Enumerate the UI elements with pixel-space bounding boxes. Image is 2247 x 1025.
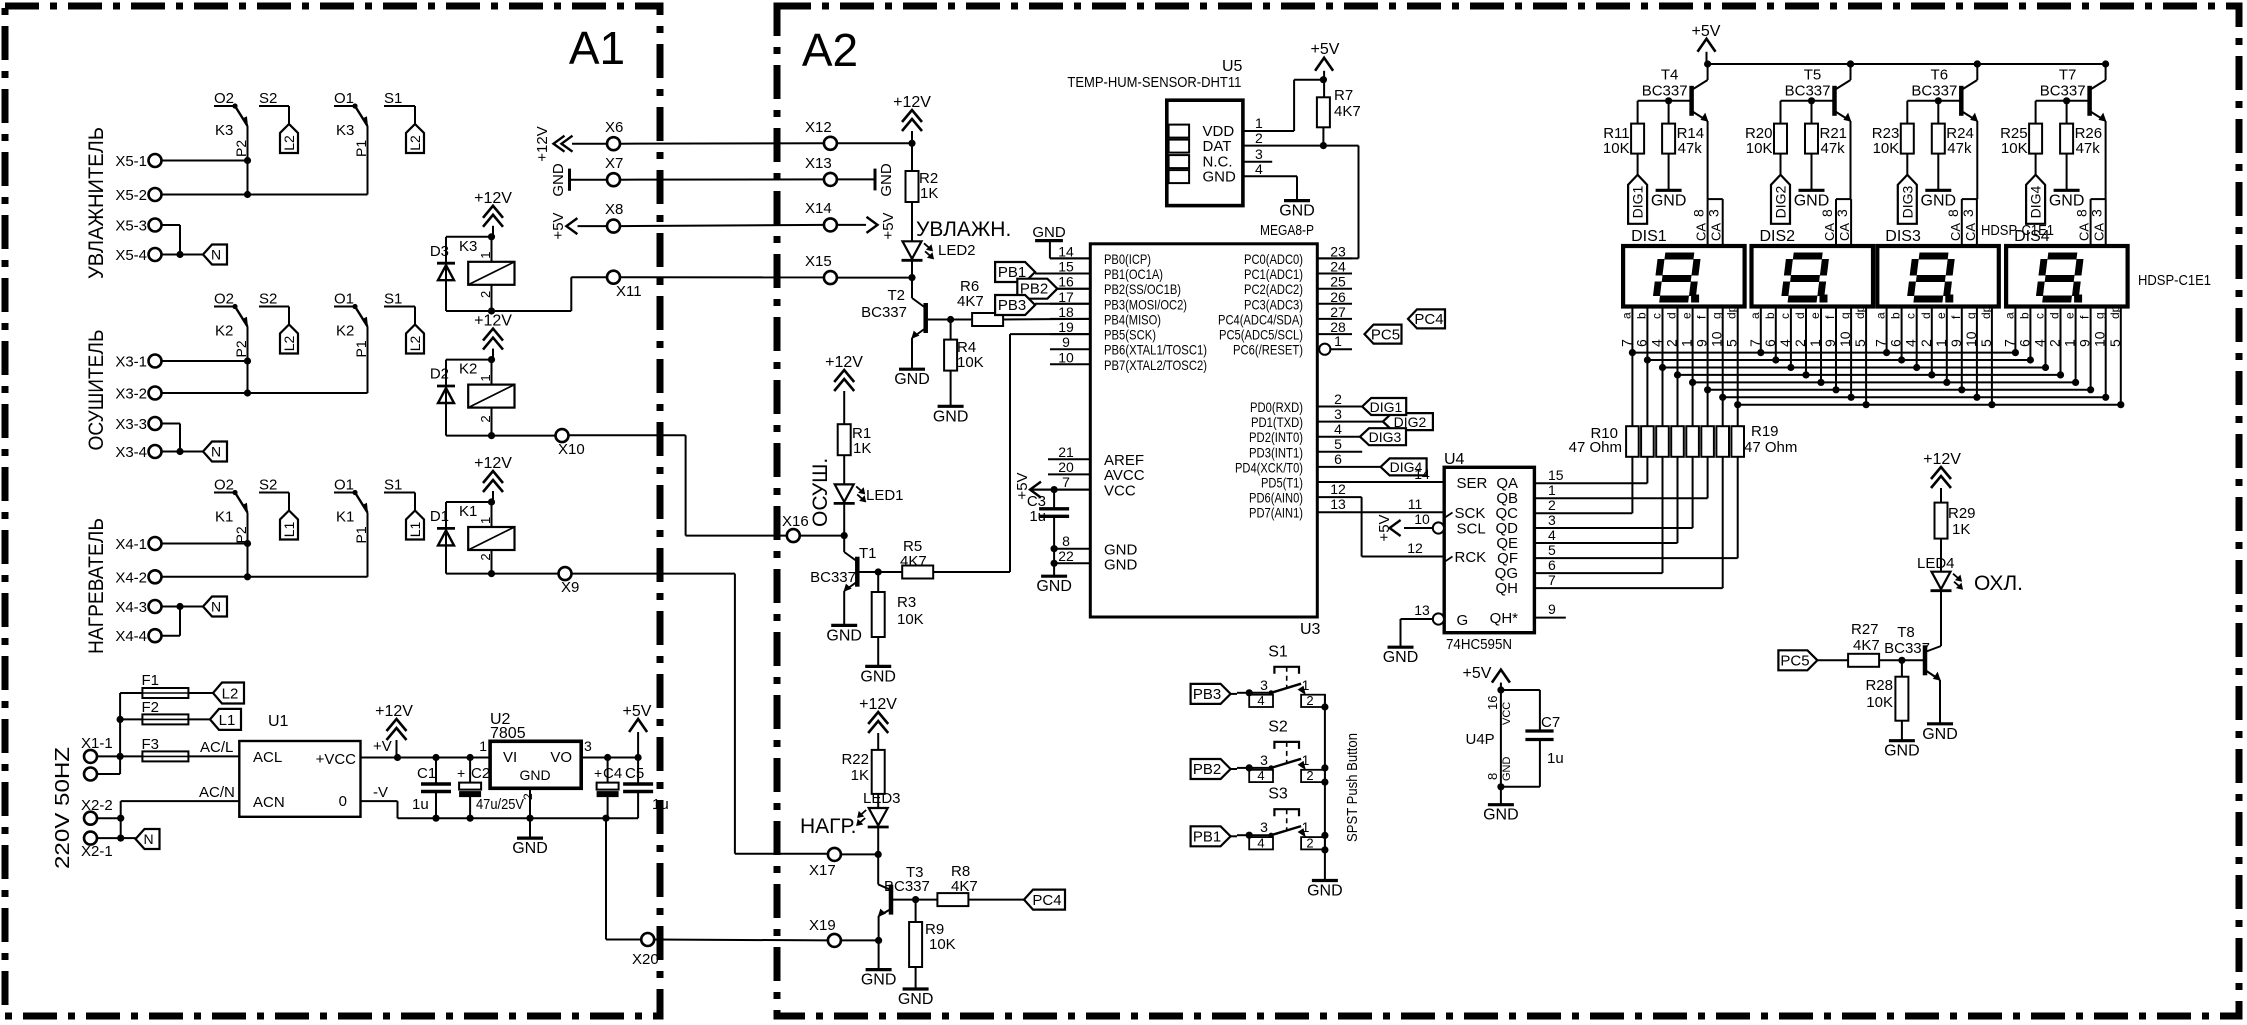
- transistor T3: [861, 854, 930, 988]
- svg-text:PB1(OC1A): PB1(OC1A): [1104, 266, 1163, 282]
- svg-text:F2: F2: [142, 699, 160, 716]
- svg-text:X5-3: X5-3: [115, 218, 147, 235]
- channel title НАГРЕВАТЕЛЬ: [85, 518, 108, 654]
- svg-text:R19: R19: [1751, 423, 1779, 440]
- diode D3: [430, 237, 455, 311]
- svg-text:X8: X8: [605, 201, 623, 218]
- svg-text:D2: D2: [430, 366, 449, 383]
- svg-text:c: c: [1778, 313, 1792, 319]
- svg-text:dp: dp: [1725, 305, 1739, 319]
- resistor R25: [2000, 124, 2042, 175]
- pushbutton S1: [1237, 643, 1329, 710]
- svg-text:g: g: [1838, 312, 1852, 319]
- svg-text:HDSP-C1E1: HDSP-C1E1: [1981, 222, 2054, 239]
- wire -V: [361, 784, 398, 818]
- svg-text:ACN: ACN: [253, 794, 285, 811]
- transistor T1: [810, 536, 876, 645]
- transistor T2: [861, 278, 930, 389]
- svg-text:7805: 7805: [490, 725, 526, 742]
- label SPST: [1344, 733, 1361, 842]
- svg-text:SER: SER: [1457, 475, 1488, 492]
- resistor R24: [1921, 101, 1974, 210]
- capacitor C5: [623, 758, 669, 819]
- U5 pin2 wire: [1243, 130, 1359, 258]
- flag PB2 (S2): [1191, 759, 1237, 779]
- svg-text:d: d: [1919, 312, 1933, 319]
- svg-text:16: 16: [1058, 274, 1074, 290]
- svg-text:PB1: PB1: [1193, 829, 1221, 846]
- svg-text:2: 2: [1664, 339, 1680, 347]
- K3 switch contact P2: [214, 103, 251, 198]
- svg-text:LED4: LED4: [1917, 555, 1955, 572]
- wire K2 top: [446, 356, 495, 363]
- svg-text:S2: S2: [259, 90, 277, 107]
- svg-text:2: 2: [1334, 391, 1342, 407]
- U4 RCK pin: [1444, 549, 1486, 566]
- svg-text:e: e: [2063, 312, 2077, 319]
- wire PB5 to R5: [1010, 334, 1090, 572]
- svg-text:U4: U4: [1444, 451, 1465, 468]
- svg-text:R27: R27: [1851, 621, 1879, 638]
- svg-text:X1-1: X1-1: [81, 735, 113, 752]
- svg-text:GND: GND: [1383, 649, 1419, 666]
- flag PC4 (T3): [1024, 890, 1065, 910]
- svg-text:GND: GND: [861, 972, 897, 989]
- svg-text:+VCC: +VCC: [316, 751, 357, 768]
- svg-text:7: 7: [1618, 339, 1634, 347]
- svg-text:4: 4: [1257, 693, 1264, 708]
- sensor U5: [1067, 58, 1243, 206]
- resistor R5: [860, 566, 1011, 579]
- svg-text:PD7(AIN1): PD7(AIN1): [1249, 505, 1303, 521]
- svg-text:DAT: DAT: [1203, 138, 1232, 155]
- svg-text:1: 1: [1933, 339, 1949, 347]
- button gnd bus: [1307, 694, 1343, 900]
- svg-text:9: 9: [1948, 339, 1964, 347]
- svg-text:X2-2: X2-2: [81, 797, 113, 814]
- channel title УВЛАЖНИТЕЛЬ: [85, 127, 108, 279]
- svg-text:+12V: +12V: [1923, 451, 1961, 468]
- svg-text:X4-1: X4-1: [115, 536, 147, 553]
- K3 switch labels: [214, 90, 402, 157]
- svg-text:1K: 1K: [920, 185, 938, 202]
- K2 lamp flag L2 (S1): [384, 307, 424, 354]
- svg-text:DIG3: DIG3: [1899, 185, 1915, 218]
- svg-text:4: 4: [1649, 339, 1665, 347]
- resistor R9: [898, 900, 956, 1008]
- svg-text:DIG1: DIG1: [1370, 399, 1403, 415]
- U4 QH* pin: [1490, 601, 1566, 627]
- svg-text:PD4(XCK/T0): PD4(XCK/T0): [1235, 459, 1303, 475]
- flag DIG3: [1898, 175, 1917, 224]
- svg-text:CA: CA: [1948, 223, 1963, 241]
- resistor R29: [1935, 503, 1976, 539]
- U3 power pin rows: [1030, 444, 1145, 574]
- svg-text:BC337: BC337: [1911, 83, 1957, 100]
- svg-text:VO: VO: [550, 749, 572, 766]
- svg-text:PB7(XTAL2/TOSC2): PB7(XTAL2/TOSC2): [1104, 357, 1207, 373]
- svg-text:X15: X15: [805, 253, 832, 270]
- diode D2: [430, 360, 455, 436]
- svg-text:10K: 10K: [1603, 140, 1630, 157]
- wire T4 base: [1638, 97, 1692, 123]
- connector X1-1: [81, 735, 113, 763]
- capacitor C1: [412, 758, 451, 819]
- connector X4-4: [115, 628, 161, 645]
- svg-text:PB3: PB3: [998, 297, 1026, 314]
- connector X14: [805, 200, 837, 231]
- svg-text:F1: F1: [142, 672, 160, 689]
- svg-text:X12: X12: [805, 119, 832, 136]
- display DIS1: [1623, 228, 1745, 307]
- U3 pin5 stub: [1317, 436, 1362, 452]
- svg-text:ACL: ACL: [253, 749, 282, 766]
- svg-text:6: 6: [1334, 451, 1342, 467]
- transistor T7: [2040, 60, 2109, 199]
- LED LED1: [834, 455, 904, 535]
- connector X2-2: [81, 797, 113, 825]
- svg-text:6: 6: [1633, 339, 1649, 347]
- svg-text:BC337: BC337: [1642, 83, 1688, 100]
- connector X4-2: [115, 569, 161, 586]
- svg-text:27: 27: [1330, 304, 1346, 320]
- svg-text:b: b: [1634, 312, 1648, 319]
- svg-text:47k: 47k: [1947, 140, 1972, 157]
- wire K3 top: [446, 233, 495, 240]
- svg-text:1u: 1u: [412, 796, 429, 813]
- svg-text:g: g: [2093, 312, 2107, 319]
- svg-text:PC4: PC4: [1414, 311, 1443, 328]
- wire X19: [841, 939, 879, 941]
- svg-text:D1: D1: [430, 508, 449, 525]
- +12V supply (K3): [474, 190, 512, 237]
- svg-text:PB3: PB3: [1193, 686, 1221, 703]
- wire K2 to X10: [492, 435, 556, 437]
- svg-text:10: 10: [1058, 349, 1074, 365]
- label R19: [1744, 423, 1797, 456]
- svg-text:+5V: +5V: [550, 212, 567, 239]
- +12V supply (R1): [825, 354, 863, 424]
- wire K3 bottom: [446, 307, 495, 314]
- connector X5-2: [115, 187, 161, 204]
- K1 lamp flag L1 (S2): [259, 493, 298, 540]
- svg-text:X20: X20: [632, 951, 659, 968]
- svg-text:1: 1: [2062, 339, 2078, 347]
- svg-text:HDSP-C1E1: HDSP-C1E1: [2138, 272, 2211, 289]
- svg-text:T8: T8: [1897, 624, 1915, 641]
- lamp flag L1 (F2): [188, 709, 241, 730]
- svg-text:4K7: 4K7: [957, 293, 984, 310]
- svg-text:L2: L2: [281, 135, 297, 151]
- svg-text:GND: GND: [1651, 192, 1687, 209]
- svg-text:4K7: 4K7: [1334, 103, 1361, 120]
- flag DIG3 (U3): [1317, 428, 1406, 445]
- GND tap at X7: [550, 163, 570, 197]
- svg-text:PC3(ADC3): PC3(ADC3): [1244, 296, 1303, 312]
- svg-text:2: 2: [2047, 339, 2063, 347]
- svg-text:24: 24: [1330, 259, 1346, 275]
- +5V supply (U4P): [1463, 665, 1510, 690]
- svg-text:PC5: PC5: [1780, 653, 1809, 670]
- svg-text:dp: dp: [2108, 305, 2122, 319]
- svg-text:PC2(ADC2): PC2(ADC2): [1244, 281, 1303, 297]
- svg-text:220V 50HZ: 220V 50HZ: [52, 747, 74, 869]
- svg-text:+: +: [457, 765, 465, 781]
- svg-text:LED3: LED3: [863, 790, 901, 807]
- display DIS2: [1752, 228, 1874, 307]
- flag DIG1 (U3): [1317, 398, 1406, 415]
- svg-text:S1: S1: [384, 477, 402, 494]
- resistor R6: [928, 278, 1090, 326]
- connector X16: [782, 513, 809, 542]
- connector X3-4: [115, 444, 161, 461]
- svg-text:R3: R3: [897, 594, 916, 611]
- U4 SER label: [1457, 475, 1488, 492]
- svg-text:12: 12: [1330, 481, 1346, 497]
- svg-text:K1: K1: [336, 509, 354, 526]
- connector X9: [559, 567, 580, 596]
- svg-text:X6: X6: [605, 119, 623, 136]
- connector X1-2: [84, 768, 97, 781]
- svg-text:НАГРЕВАТЕЛЬ: НАГРЕВАТЕЛЬ: [85, 518, 108, 654]
- resistor R14: [1651, 101, 1704, 210]
- svg-text:5: 5: [2107, 339, 2123, 347]
- svg-text:DIG3: DIG3: [1369, 429, 1402, 445]
- svg-text:3: 3: [1260, 752, 1268, 768]
- +12V supply (K2): [474, 313, 512, 360]
- wire X3-1: [162, 360, 248, 362]
- svg-text:+5V: +5V: [1376, 514, 1393, 541]
- svg-text:3: 3: [2089, 209, 2105, 217]
- +5V tap (VCC): [1014, 472, 1041, 499]
- resistor R3: [860, 572, 923, 685]
- svg-text:PB2: PB2: [1193, 761, 1221, 778]
- svg-text:L1: L1: [407, 522, 423, 538]
- svg-text:GND: GND: [1032, 224, 1066, 241]
- wire X11 to X15: [620, 276, 824, 278]
- svg-text:T2: T2: [887, 287, 905, 304]
- svg-text:ОХЛ.: ОХЛ.: [1974, 572, 2023, 595]
- connector X3-1: [115, 354, 161, 371]
- svg-text:7: 7: [1548, 572, 1556, 588]
- svg-text:8: 8: [2074, 209, 2090, 217]
- svg-text:O2: O2: [214, 477, 234, 494]
- svg-text:4: 4: [2032, 339, 2048, 347]
- svg-text:K3: K3: [336, 122, 354, 139]
- svg-text:3: 3: [1548, 512, 1556, 528]
- shift register U4 body: [1444, 451, 1534, 653]
- svg-text:3: 3: [1834, 209, 1850, 217]
- svg-text:X14: X14: [805, 200, 832, 217]
- svg-text:4K7: 4K7: [1853, 637, 1880, 654]
- U3 PC pin rows: [1218, 243, 1352, 342]
- connector X4-3: [115, 599, 161, 616]
- U3 PD labels: [1235, 399, 1303, 521]
- svg-text:GND: GND: [898, 991, 934, 1008]
- svg-text:GND: GND: [2049, 192, 2085, 209]
- +5V supply (R7): [1311, 41, 1340, 97]
- wire PD7-SCK: [1317, 496, 1444, 512]
- svg-text:2: 2: [1306, 836, 1313, 851]
- wire K1 to X9: [492, 573, 559, 575]
- flag DIG2 (U3): [1317, 413, 1433, 430]
- svg-text:GND: GND: [512, 840, 548, 857]
- U3 left pin rows: [1050, 243, 1207, 372]
- svg-text:dp: dp: [1979, 305, 1993, 319]
- svg-text:PC1(ADC1): PC1(ADC1): [1244, 266, 1303, 282]
- connector X13: [805, 155, 837, 186]
- svg-text:10: 10: [1837, 331, 1853, 347]
- wire AC/L: [188, 739, 239, 756]
- svg-text:L2: L2: [222, 686, 239, 703]
- svg-text:4K7: 4K7: [951, 878, 978, 895]
- flag PB1 (S3): [1191, 826, 1237, 846]
- svg-text:X2-1: X2-1: [81, 843, 113, 860]
- svg-text:5: 5: [1548, 542, 1556, 558]
- svg-text:1K: 1K: [1952, 521, 1970, 538]
- svg-text:47k: 47k: [2076, 140, 2101, 157]
- wire T5 base: [1781, 97, 1835, 123]
- flag PC4 (U3): [1334, 309, 1445, 437]
- svg-text:DIG4: DIG4: [2028, 185, 2044, 218]
- wire +V rail: [361, 738, 491, 761]
- svg-text:8: 8: [1062, 533, 1070, 549]
- channel title ОСУШИТЕЛЬ: [85, 330, 108, 451]
- svg-text:GND: GND: [550, 163, 567, 197]
- svg-text:4: 4: [1777, 339, 1793, 347]
- flag PC5 (T8): [1778, 650, 1817, 670]
- svg-text:X16: X16: [782, 513, 809, 530]
- wire K3 to X11: [492, 277, 608, 311]
- wire X5-1: [162, 160, 248, 162]
- svg-text:6: 6: [1888, 339, 1904, 347]
- svg-text:6: 6: [1762, 339, 1778, 347]
- svg-text:21: 21: [1058, 444, 1074, 460]
- svg-text:7: 7: [1873, 339, 1889, 347]
- connector X15: [805, 253, 837, 284]
- transistor T4: [1642, 60, 1711, 199]
- connector X10: [556, 429, 585, 458]
- svg-text:GND: GND: [1884, 743, 1920, 760]
- svg-text:15: 15: [1548, 467, 1564, 483]
- svg-text:10: 10: [1414, 511, 1430, 527]
- block A1 border: [5, 6, 660, 1016]
- connector X20: [632, 933, 659, 968]
- regulator U2: [490, 711, 581, 788]
- svg-text:d: d: [1665, 312, 1679, 319]
- svg-text:14: 14: [1058, 243, 1074, 259]
- svg-text:T7: T7: [2059, 67, 2077, 84]
- wire X6-X12: [572, 142, 824, 144]
- svg-text:1u: 1u: [1547, 750, 1564, 767]
- svg-text:1: 1: [1255, 115, 1263, 131]
- svg-text:12: 12: [1407, 540, 1423, 556]
- svg-text:C4: C4: [603, 765, 622, 782]
- svg-text:11: 11: [1408, 496, 1423, 512]
- svg-text:T6: T6: [1931, 67, 1949, 84]
- block A2 border: [777, 6, 2239, 1016]
- svg-text:R7: R7: [1334, 87, 1353, 104]
- svg-text:MEGA8-P: MEGA8-P: [1260, 222, 1314, 239]
- svg-text:2: 2: [1792, 339, 1808, 347]
- svg-text:AVCC: AVCC: [1104, 467, 1145, 484]
- svg-text:DIS2: DIS2: [1760, 228, 1796, 245]
- resistor R7: [1317, 87, 1361, 146]
- DIS3 segment pins: [1873, 305, 1996, 408]
- wire X8-X14: [578, 225, 825, 226]
- svg-text:1: 1: [1807, 339, 1823, 347]
- wire X15: [837, 274, 916, 281]
- svg-text:4: 4: [1548, 527, 1556, 543]
- svg-text:K3: K3: [215, 122, 233, 139]
- svg-text:K1: K1: [215, 509, 233, 526]
- svg-text:SCL: SCL: [1457, 521, 1486, 538]
- svg-text:LED1: LED1: [866, 487, 904, 504]
- +5V tap at X14: [837, 212, 897, 239]
- svg-text:74HC595N: 74HC595N: [1446, 636, 1512, 653]
- capacitor C2: [457, 758, 524, 819]
- diode D1: [430, 502, 455, 574]
- flag PB3 (S1): [1191, 684, 1237, 704]
- svg-text:10K: 10K: [957, 354, 984, 371]
- svg-text:N: N: [211, 444, 221, 460]
- svg-text:TEMP-HUM-SENSOR-DHT11: TEMP-HUM-SENSOR-DHT11: [1067, 74, 1241, 91]
- svg-text:17: 17: [1058, 289, 1074, 305]
- MCU U3 body: [1090, 222, 1320, 638]
- wire mains N: [97, 784, 239, 838]
- svg-text:RCK: RCK: [1455, 549, 1487, 566]
- svg-text:GND: GND: [519, 767, 550, 783]
- svg-text:2: 2: [1306, 768, 1313, 783]
- fuse F1: [142, 672, 189, 698]
- svg-text:U5: U5: [1222, 58, 1243, 75]
- svg-text:X10: X10: [558, 441, 585, 458]
- svg-text:T5: T5: [1804, 67, 1822, 84]
- svg-text:5: 5: [1978, 339, 1994, 347]
- svg-text:GND: GND: [1307, 883, 1343, 900]
- svg-text:GND: GND: [933, 408, 969, 425]
- power module U1: [239, 713, 360, 817]
- svg-text:U1: U1: [268, 713, 289, 730]
- svg-text:b: b: [1889, 312, 1903, 319]
- wire X4-2: [162, 576, 368, 578]
- svg-text:DIS1: DIS1: [1631, 228, 1667, 245]
- svg-text:S1: S1: [384, 90, 402, 107]
- svg-text:S2: S2: [259, 477, 277, 494]
- svg-text:+12V: +12V: [375, 703, 413, 720]
- U4 Q labels: [1495, 467, 1564, 597]
- resistor R1: [838, 424, 872, 457]
- connector X5-3: [115, 218, 161, 235]
- svg-text:d: d: [1793, 312, 1807, 319]
- label OHL: [1974, 572, 2023, 595]
- svg-text:10K: 10K: [1746, 140, 1773, 157]
- svg-text:PD5(T1): PD5(T1): [1261, 475, 1303, 491]
- svg-text:GND: GND: [878, 163, 895, 197]
- svg-text:X4-4: X4-4: [115, 628, 147, 645]
- svg-text:8: 8: [1691, 209, 1707, 217]
- LED LED4: [1917, 539, 1962, 640]
- svg-text:O1: O1: [334, 90, 354, 107]
- wire PD5-SER: [1317, 466, 1444, 482]
- svg-text:c: c: [2033, 313, 2047, 319]
- label HDSP-C1E1 (DIS4 top): [1981, 222, 2054, 239]
- svg-text:9: 9: [2077, 339, 2093, 347]
- svg-text:14: 14: [1414, 466, 1430, 482]
- svg-text:X19: X19: [809, 917, 836, 934]
- svg-text:L2: L2: [281, 336, 297, 352]
- resistor R26: [2049, 101, 2102, 210]
